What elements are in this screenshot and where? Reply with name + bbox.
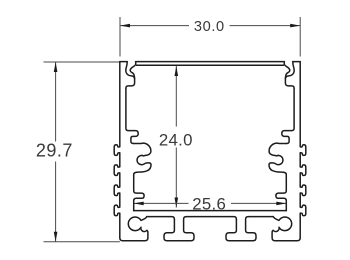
dimension line 25.6 right segment <box>231 202 286 204</box>
arrowhead bottom end of 24.0 <box>175 198 179 208</box>
gap ceiling center <box>186 217 236 220</box>
right clip groove hook <box>285 62 294 89</box>
T-foot left <box>164 217 194 241</box>
right clip groove tooth <box>284 62 289 79</box>
dimension line 24.0 lower segment <box>175 148 177 208</box>
gap ceiling right <box>248 216 273 218</box>
gap ceiling left <box>147 217 175 220</box>
right C screw boss <box>269 143 287 178</box>
dimension line 29.7 upper segment <box>55 62 57 142</box>
profile top face right segment <box>293 61 300 63</box>
dimension line 24.0 upper segment <box>175 66 177 127</box>
dimension line 29.7 lower segment <box>55 162 57 242</box>
dimension line 25.6 left segment <box>134 202 189 204</box>
left C screw boss <box>133 143 151 178</box>
profile top face middle segment <box>136 61 285 63</box>
arrowhead top end of 29.7 <box>54 62 58 72</box>
svg-text:29.7: 29.7 <box>36 141 73 161</box>
dimension line 30.0 right segment <box>230 25 301 27</box>
arrowhead right end of 25.6 <box>276 202 286 206</box>
arrowhead left end of 30.0 <box>120 24 130 28</box>
arrowhead top end of 24.0 <box>175 66 179 76</box>
arrowhead left end of 25.6 <box>134 202 144 206</box>
left foot with screw notch <box>120 217 148 241</box>
right outer wall with rib bumps <box>300 62 306 238</box>
arrowhead bottom end of 29.7 <box>54 232 58 242</box>
extension line bottom for 29.7 dim <box>44 241 120 243</box>
right foot with screw notch <box>272 217 300 241</box>
profile top face left segment <box>120 61 127 63</box>
left wall lower face and lower finger <box>134 178 144 211</box>
right wall lower face and lower finger <box>276 178 286 211</box>
T-foot right <box>226 217 256 241</box>
left outer wall with rib bumps <box>114 62 120 238</box>
extension line right for 30.0 dim <box>299 17 301 57</box>
cavity floor line <box>134 210 287 212</box>
extension line top for 29.7 dim <box>44 61 120 63</box>
right wall upper face and finger hook <box>282 88 294 143</box>
extension line left for 30.0 dim <box>119 17 121 57</box>
left clip groove hook <box>126 62 135 89</box>
left wall upper face and finger hook <box>126 88 138 143</box>
svg-text:30.0: 30.0 <box>194 19 225 35</box>
arrowhead right end of 30.0 <box>290 24 300 28</box>
dimension line 30.0 left segment <box>120 25 189 27</box>
inner cover ledge line <box>137 64 284 66</box>
left clip groove tooth <box>130 62 135 79</box>
svg-text:24.0: 24.0 <box>159 131 193 150</box>
